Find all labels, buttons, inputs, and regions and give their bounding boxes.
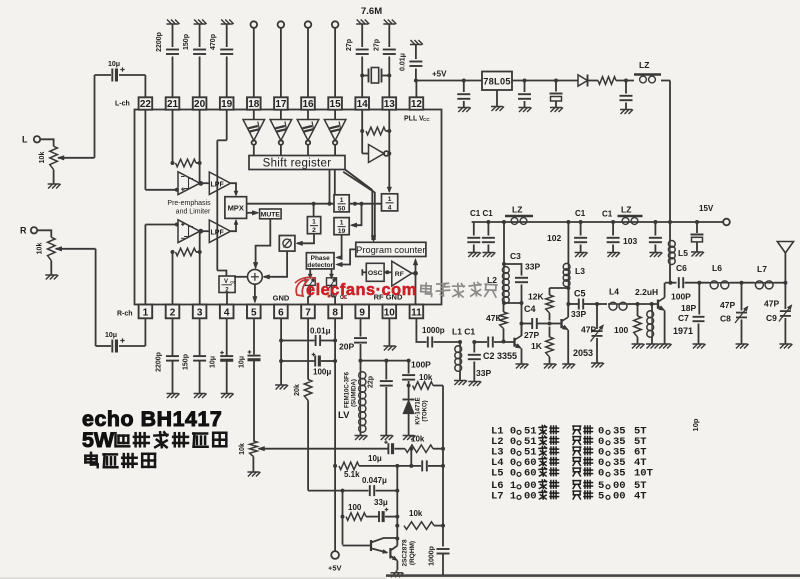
svg-text:2200p: 2200p: [156, 32, 163, 52]
svg-text:LZ: LZ: [621, 205, 631, 215]
svg-text:103: 103: [623, 236, 637, 246]
svg-text:+5V: +5V: [328, 564, 342, 573]
svg-text:L7: L7: [757, 264, 767, 274]
svg-text:10k: 10k: [239, 443, 246, 455]
svg-text:16: 16: [302, 99, 314, 110]
svg-text:C8: C8: [720, 314, 731, 324]
svg-text:C5: C5: [574, 289, 586, 299]
svg-text:C2 3355: C2 3355: [483, 351, 517, 361]
svg-text:6: 6: [278, 307, 284, 318]
svg-text:470p: 470p: [210, 34, 217, 50]
svg-text:1: 1: [340, 197, 344, 204]
svg-text:10p: 10p: [691, 418, 700, 431]
svg-text:LPF: LPF: [211, 229, 225, 236]
svg-text:102: 102: [547, 233, 561, 243]
svg-text:19: 19: [221, 99, 233, 110]
svg-text:L: L: [22, 135, 28, 145]
svg-text:27P: 27P: [524, 330, 539, 340]
svg-text:L5 0: L5 0: [491, 468, 516, 480]
svg-text:(SUMIDA): (SUMIDA): [352, 379, 358, 407]
svg-text:5: 5: [251, 307, 257, 318]
svg-text:15V: 15V: [699, 204, 714, 213]
svg-text:47K: 47K: [486, 313, 502, 323]
svg-text:C1: C1: [575, 209, 586, 218]
svg-text:L5: L5: [678, 248, 688, 258]
svg-text:CC: CC: [230, 280, 236, 285]
svg-text:C1: C1: [602, 210, 613, 219]
svg-text:33μ: 33μ: [374, 498, 388, 507]
svg-text:2.2uH: 2.2uH: [635, 287, 658, 297]
svg-text:(TOKO): (TOKO): [423, 400, 429, 421]
svg-text:elecfans·com: elecfans·com: [306, 281, 417, 299]
svg-text:LPF: LPF: [211, 181, 225, 188]
svg-text:12K: 12K: [528, 292, 544, 302]
svg-text:7: 7: [305, 307, 311, 318]
svg-text:100: 100: [614, 325, 628, 335]
svg-text:100P: 100P: [671, 292, 691, 302]
svg-text:20k: 20k: [294, 384, 301, 396]
svg-text:17: 17: [275, 99, 287, 110]
svg-text:00: 00: [524, 491, 537, 503]
svg-text:L-ch: L-ch: [115, 101, 130, 108]
svg-text:10k: 10k: [39, 152, 46, 164]
svg-text:7.6M: 7.6M: [361, 6, 382, 17]
svg-text:8: 8: [332, 307, 338, 318]
svg-text:FEM10C-3F6: FEM10C-3F6: [345, 371, 351, 408]
svg-text:PLL V: PLL V: [404, 116, 424, 123]
svg-text:35: 35: [613, 468, 626, 480]
svg-text:1971: 1971: [673, 326, 693, 336]
svg-text:10k: 10k: [37, 243, 44, 255]
svg-text:OSC: OSC: [368, 270, 383, 277]
svg-text:detector: detector: [307, 262, 333, 269]
svg-text:CC: CC: [423, 117, 430, 122]
svg-text:2053: 2053: [573, 348, 593, 358]
svg-text:14: 14: [357, 99, 369, 110]
svg-text:2: 2: [312, 227, 316, 234]
svg-text:33P: 33P: [525, 262, 540, 272]
svg-text:10μ: 10μ: [108, 61, 120, 68]
svg-text:10k: 10k: [419, 373, 433, 382]
svg-text:100μ: 100μ: [313, 368, 331, 377]
svg-text:L7 1: L7 1: [491, 491, 516, 503]
svg-text:27p: 27p: [346, 39, 353, 51]
svg-text:MPX: MPX: [228, 204, 244, 213]
svg-text:LZ: LZ: [512, 205, 522, 215]
svg-text:78L05: 78L05: [483, 77, 511, 87]
svg-text:9: 9: [359, 307, 365, 318]
svg-text:MUTE: MUTE: [261, 212, 281, 219]
svg-text:0.01μ: 0.01μ: [310, 327, 331, 336]
svg-text:10: 10: [384, 307, 396, 318]
svg-text:RF: RF: [395, 271, 404, 278]
svg-text:19: 19: [338, 228, 346, 235]
svg-text:1: 1: [312, 219, 316, 226]
svg-text:47P: 47P: [720, 300, 735, 310]
svg-text:C1 C1: C1 C1: [470, 209, 493, 218]
svg-text:L3: L3: [575, 266, 585, 276]
svg-text:100P: 100P: [411, 360, 431, 370]
svg-text:LZ: LZ: [639, 60, 649, 70]
svg-text:4: 4: [388, 204, 392, 211]
svg-text:33P: 33P: [476, 368, 491, 378]
svg-text:1: 1: [143, 307, 149, 318]
svg-text:(RQHM): (RQHM): [409, 541, 416, 565]
svg-text:4T: 4T: [634, 491, 647, 503]
svg-text:0: 0: [598, 468, 604, 480]
svg-text:Program counter: Program counter: [356, 245, 425, 255]
svg-text:4: 4: [224, 307, 230, 318]
svg-text:27p: 27p: [373, 39, 380, 51]
svg-text:L6: L6: [712, 263, 722, 273]
svg-text:22p: 22p: [368, 376, 375, 388]
svg-text:150p: 150p: [183, 34, 190, 50]
svg-text:0.01μ: 0.01μ: [400, 53, 407, 71]
svg-text:2200p: 2200p: [156, 352, 163, 372]
svg-text:22: 22: [140, 99, 152, 110]
svg-text:R-ch: R-ch: [117, 311, 133, 318]
svg-text:C3: C3: [510, 251, 521, 261]
svg-text:15: 15: [330, 99, 342, 110]
svg-text:20P: 20P: [339, 342, 354, 352]
svg-text:18: 18: [248, 99, 260, 110]
svg-text:60: 60: [524, 468, 537, 480]
svg-text:150p: 150p: [183, 354, 190, 370]
svg-text:1: 1: [388, 196, 392, 203]
svg-text:+5V: +5V: [432, 70, 447, 79]
svg-text:1K: 1K: [531, 341, 543, 351]
svg-text:10μ: 10μ: [105, 332, 117, 339]
svg-text:L1 C1: L1 C1: [452, 327, 475, 337]
svg-text:and Limiter: and Limiter: [176, 209, 211, 216]
svg-text:20: 20: [194, 99, 206, 110]
svg-text:21: 21: [167, 99, 179, 110]
svg-text:L2: L2: [487, 275, 497, 285]
svg-text:10T: 10T: [634, 468, 653, 480]
svg-text:KV-1471E: KV-1471E: [416, 397, 422, 424]
svg-text:C4: C4: [524, 304, 536, 314]
svg-text:3: 3: [197, 307, 203, 318]
svg-text:5: 5: [598, 491, 604, 503]
svg-text:10k: 10k: [409, 509, 423, 518]
svg-text:V: V: [224, 279, 228, 285]
svg-text:33P: 33P: [571, 309, 586, 319]
svg-text:2: 2: [170, 307, 176, 318]
svg-text:47P: 47P: [581, 325, 596, 335]
svg-text:100: 100: [348, 503, 362, 512]
svg-text:GND: GND: [273, 294, 290, 303]
svg-text:LV: LV: [338, 410, 350, 421]
svg-text:1: 1: [340, 220, 344, 227]
svg-text:C6: C6: [676, 263, 687, 273]
svg-text:Shift register: Shift register: [263, 158, 332, 170]
svg-text:5.1k: 5.1k: [344, 470, 360, 479]
svg-text:18P: 18P: [681, 303, 696, 313]
svg-text:00: 00: [613, 491, 626, 503]
svg-text:1000p: 1000p: [422, 326, 445, 335]
svg-text:50: 50: [338, 205, 346, 212]
svg-text:47P: 47P: [764, 299, 779, 309]
svg-text:Pre-emphasis: Pre-emphasis: [167, 200, 211, 207]
svg-text:0.047μ: 0.047μ: [362, 476, 387, 485]
svg-text:13: 13: [384, 99, 396, 110]
svg-text:10μ: 10μ: [239, 356, 246, 368]
svg-text:2: 2: [225, 287, 229, 294]
svg-text:C9: C9: [766, 313, 777, 323]
svg-text:1000p: 1000p: [429, 546, 436, 566]
svg-text:12: 12: [411, 99, 423, 110]
svg-text:11: 11: [411, 307, 422, 318]
svg-text:10μ: 10μ: [210, 356, 217, 368]
svg-text:L4: L4: [609, 287, 619, 297]
svg-text:5W: 5W: [82, 428, 115, 452]
svg-text:2SC2878: 2SC2878: [402, 539, 409, 566]
svg-text:R: R: [20, 226, 27, 236]
svg-text:10μ: 10μ: [368, 454, 382, 463]
svg-text:C7: C7: [678, 313, 689, 323]
svg-text:Phase: Phase: [311, 255, 331, 262]
